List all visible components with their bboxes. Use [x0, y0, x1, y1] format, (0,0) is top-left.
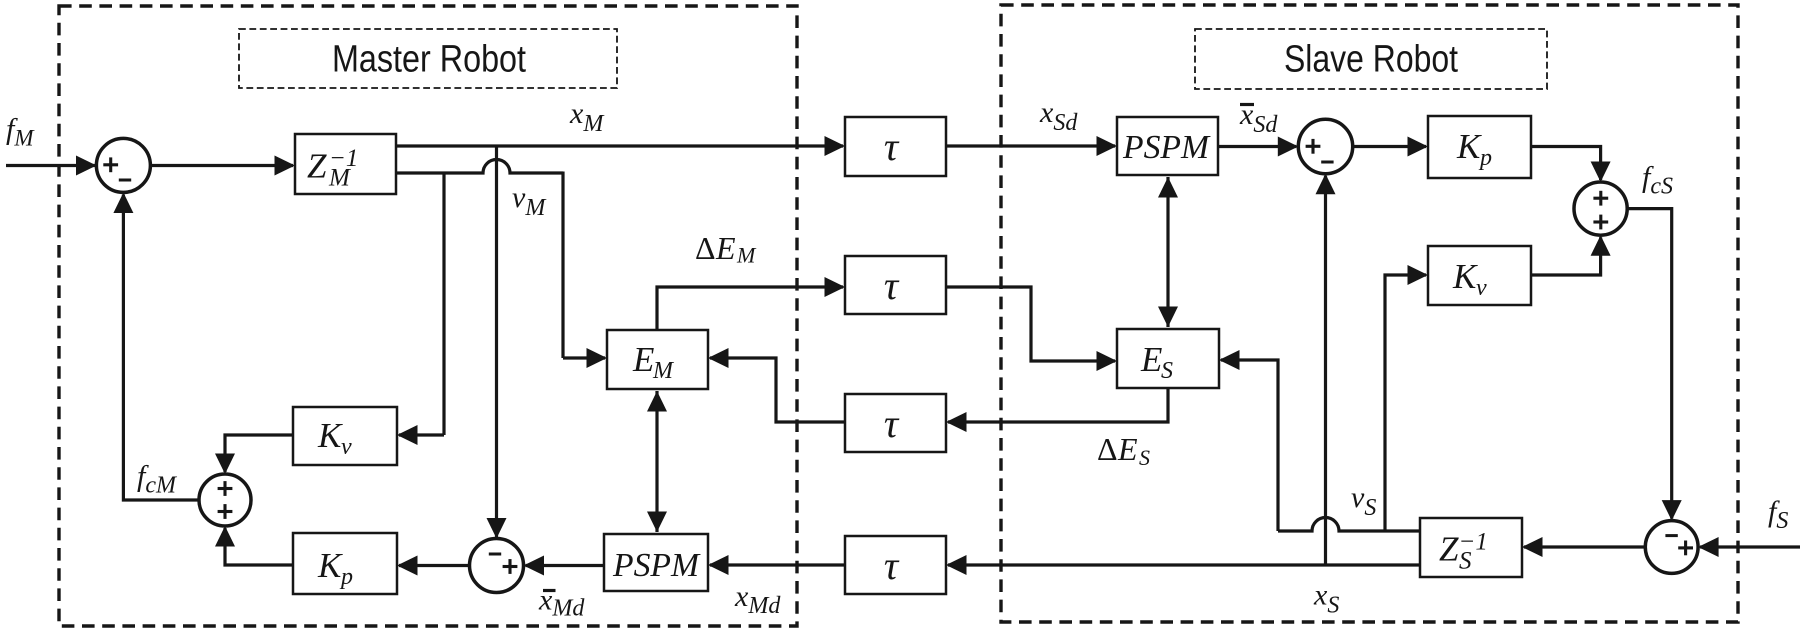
svg-text:S: S — [1139, 445, 1150, 470]
label x_Sd — [1039, 96, 1078, 136]
block K_p slave — [1428, 116, 1531, 178]
wire PSPM master to junction C — [524, 556, 605, 576]
svg-text:τ: τ — [884, 263, 900, 308]
label x_S — [1313, 579, 1339, 619]
label Delta E_M — [695, 230, 757, 268]
wire K_v slave to junction E bottom — [1531, 235, 1611, 275]
label v_M — [512, 181, 547, 221]
svg-text:K: K — [1452, 257, 1478, 296]
svg-text:τ: τ — [884, 124, 900, 169]
wire x_S from Z_S to tau4 — [946, 555, 1420, 575]
svg-text:Δ: Δ — [1097, 431, 1118, 467]
wire f_cM junction B to junction A bottom — [113, 193, 199, 501]
svg-text:Slave Robot: Slave Robot — [1284, 39, 1458, 81]
block E_M — [607, 330, 708, 389]
master robot dashed boundary — [59, 6, 797, 626]
svg-text:E: E — [1117, 431, 1138, 467]
wire tau2 output to E_S left — [946, 287, 1117, 371]
label x_Md — [734, 580, 781, 619]
wire tau3 output to E_M right — [708, 348, 845, 422]
label v_S — [1351, 481, 1376, 521]
svg-text:v: v — [1476, 275, 1487, 301]
label f_cS — [1642, 161, 1673, 200]
svg-text:E: E — [1140, 340, 1162, 379]
block tau 3 (Delta E_S channel) — [845, 394, 946, 452]
block tau 2 (Delta E_M channel) — [845, 256, 946, 314]
slave robot dashed boundary — [1001, 5, 1738, 622]
wire tau1 output x_Sd to PSPM slave — [946, 136, 1117, 156]
wire f_M input to junction A — [6, 156, 97, 176]
summing junction F slave position (-,+) — [1645, 521, 1698, 574]
slave robot label box — [1195, 29, 1547, 89]
wire double arrow PSPM slave to E_S — [1158, 177, 1178, 327]
wire v_M from Z_M with hop over x=496 — [396, 160, 563, 174]
wire K_p master to junction B bottom — [215, 526, 293, 565]
block PSPM master — [604, 534, 708, 591]
svg-text:τ: τ — [884, 401, 900, 446]
svg-text:Δ: Δ — [695, 230, 716, 266]
block Z_M^-1 — [295, 134, 396, 194]
wire junction D to K_p slave — [1353, 137, 1428, 157]
label Delta E_S — [1097, 431, 1150, 470]
wire K_v master to junction B top — [215, 435, 293, 474]
block K_p master — [293, 533, 397, 594]
block K_v master — [293, 407, 397, 465]
wire junction C to K_p master — [397, 556, 470, 576]
wire junction A to Z_M^-1 — [150, 156, 295, 176]
svg-text:Z: Z — [307, 147, 327, 186]
label xbar_Md — [538, 584, 585, 622]
svg-text:PSPM: PSPM — [612, 547, 701, 584]
svg-text:τ: τ — [884, 543, 900, 588]
wire double arrow E_M to PSPM master — [647, 391, 667, 532]
svg-text:−1: −1 — [1459, 529, 1488, 556]
block K_v slave — [1428, 246, 1531, 305]
label f_M — [6, 113, 35, 151]
svg-text:M: M — [736, 243, 757, 268]
summing junction B master force (+,+) — [199, 474, 251, 526]
svg-text:K: K — [1456, 127, 1482, 166]
svg-text:PSPM: PSPM — [1122, 129, 1211, 166]
wire PSPM slave xbar_Sd to junction D — [1218, 137, 1298, 157]
block tau 4 (x_S channel) — [845, 536, 946, 594]
svg-text:p: p — [339, 564, 353, 590]
wire v_S branch up to K_v slave — [1385, 265, 1428, 531]
svg-text:v: v — [341, 434, 352, 460]
wire x_M from Z_M to tau1 — [396, 136, 845, 156]
summing junction A master input (+,-) — [96, 138, 150, 192]
wire Delta E_M from E_M top to tau2 — [657, 277, 845, 331]
svg-text:Master Robot: Master Robot — [332, 39, 526, 81]
summing junction E slave force (+,+) — [1574, 182, 1627, 235]
wire tau4 output to PSPM master — [708, 555, 845, 575]
wire x_M branch x=496 down to junction C — [487, 145, 507, 539]
master robot label box — [239, 29, 617, 88]
svg-text:−1: −1 — [329, 145, 358, 172]
wire f_cS junction E to junction F top — [1627, 209, 1682, 521]
wire v_S up to E_S right — [1219, 350, 1278, 531]
block tau 1 (x_M channel) — [845, 117, 946, 176]
wire v_S from Z_S with hop over x=1326 — [1278, 518, 1420, 532]
wire branch x=444 down to K_v master — [397, 172, 444, 446]
label xbar_Sd — [1239, 98, 1278, 138]
wire x_S branch up to junction D bottom — [1316, 174, 1336, 565]
wire junction F to Z_S^-1 — [1522, 537, 1645, 557]
svg-text:p: p — [1478, 145, 1492, 171]
block PSPM slave — [1117, 117, 1218, 175]
block E_S — [1117, 329, 1219, 388]
svg-text:S: S — [1161, 358, 1173, 384]
wire Delta E_S from E_S bottom to tau3 — [946, 388, 1168, 432]
label x_M — [569, 97, 605, 137]
svg-text:Z: Z — [1439, 530, 1459, 569]
label f_cM — [137, 460, 178, 499]
svg-text:E: E — [715, 230, 736, 266]
summing junction D slave input (+,-) — [1298, 119, 1352, 173]
wire branch x=563 down to E_M left — [563, 172, 607, 369]
summing junction C master position (-,+) — [470, 539, 524, 593]
svg-text:K: K — [317, 546, 343, 585]
svg-text:M: M — [652, 358, 675, 384]
label f_S — [1768, 495, 1788, 534]
svg-text:K: K — [317, 416, 343, 455]
svg-text:E: E — [632, 340, 654, 379]
wire K_p slave to junction E top — [1531, 147, 1611, 183]
block Z_S^-1 — [1420, 518, 1522, 577]
wire f_S input to junction F — [1698, 537, 1800, 557]
